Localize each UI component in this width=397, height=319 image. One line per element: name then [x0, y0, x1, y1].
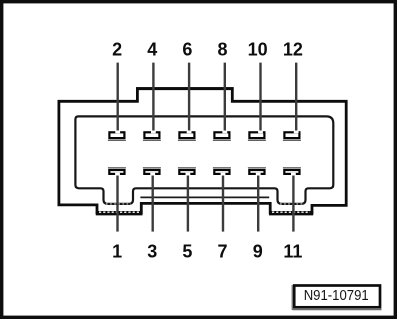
mounting tab 2 bottom bar [269, 211, 313, 215]
terminal pin 12 [283, 132, 301, 140]
wire pin 4 [152, 63, 154, 132]
terminal pin 3 [143, 168, 161, 174]
terminal pin 5 [178, 168, 196, 174]
wire pin 12 [295, 63, 297, 132]
svg-text:7: 7 [217, 241, 227, 261]
svg-text:8: 8 [217, 39, 227, 59]
terminal pin 2 [108, 132, 126, 140]
wire pin 7 [222, 174, 224, 231]
terminal pin 6 [178, 132, 196, 140]
figure number label box [292, 285, 381, 310]
terminal pin 7 [213, 168, 231, 174]
svg-text:1: 1 [112, 241, 122, 261]
svg-text:11: 11 [283, 241, 302, 261]
connector outer housing outline [59, 89, 346, 213]
wire pin 2 [116, 63, 118, 132]
terminal pin 8 [213, 132, 231, 140]
terminal pin 10 [248, 132, 266, 140]
channel 1 dashed floor highlight [106, 203, 131, 205]
wire pin 6 [188, 63, 190, 132]
channel 2 dashed floor highlight [280, 203, 303, 205]
svg-text:6: 6 [182, 39, 192, 59]
svg-text:4: 4 [147, 39, 157, 59]
terminal pin 1 [108, 168, 126, 174]
svg-text:2: 2 [112, 39, 122, 59]
svg-text:5: 5 [182, 241, 192, 261]
svg-text:10: 10 [248, 39, 268, 59]
connector inner face outline [75, 116, 333, 203]
wire pin 8 [224, 63, 226, 132]
terminal pin 4 [143, 132, 161, 140]
wire pin 10 [259, 63, 261, 132]
wire pin 9 [257, 174, 259, 231]
wire pin 11 [292, 174, 294, 231]
svg-text:3: 3 [147, 241, 157, 261]
terminal pin 11 [283, 168, 301, 174]
svg-text:9: 9 [253, 241, 263, 261]
wire pin 5 [187, 174, 189, 231]
bottom rib line between tabs [140, 196, 269, 198]
terminal pin 9 [248, 168, 266, 174]
mounting tab 2 serration [272, 211, 310, 213]
connector key tab top edge [136, 87, 234, 90]
mounting tab 1 bottom bar [96, 211, 143, 215]
svg-text:12: 12 [283, 39, 303, 59]
mounting tab 1 serration [99, 211, 139, 213]
svg-text:N91-10791: N91-10791 [304, 288, 369, 304]
wire pin 1 [116, 174, 118, 231]
wire pin 3 [151, 174, 153, 231]
